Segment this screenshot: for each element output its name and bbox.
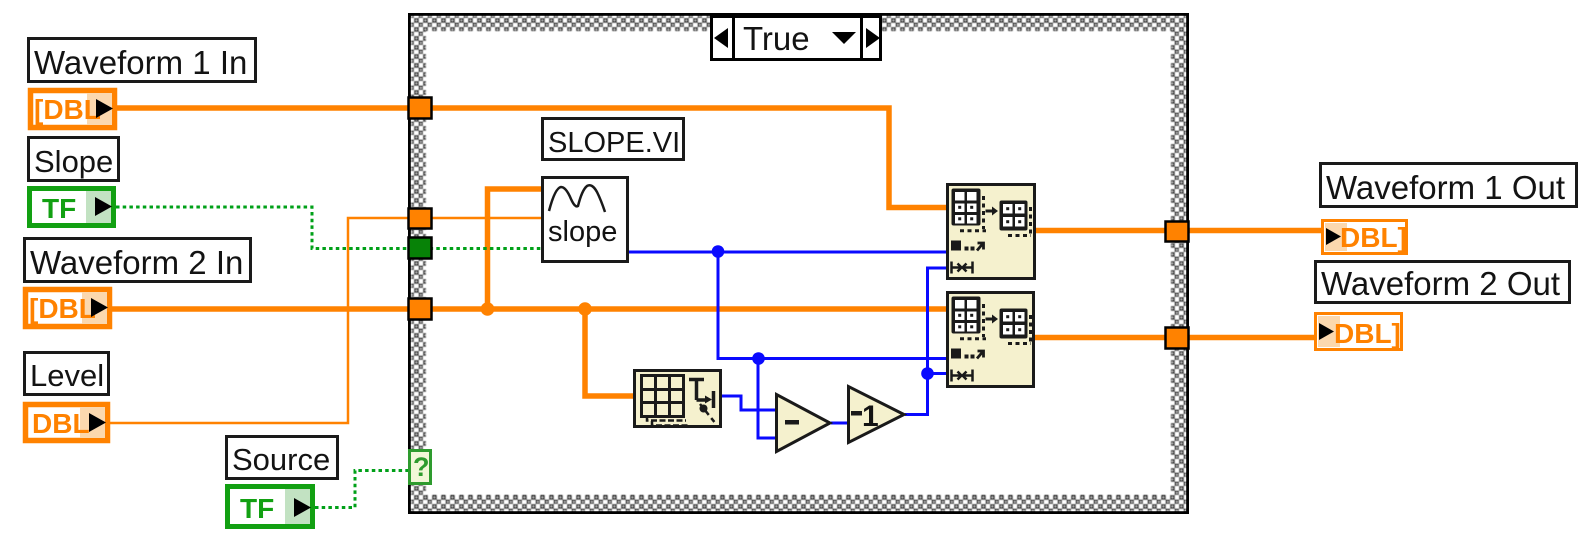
svg-text:DBL: DBL (32, 408, 90, 439)
junction waveform2-trigger (578, 302, 592, 316)
wire source boolean (green dotted) (315, 471, 410, 508)
append waveforms icon 1 (948, 185, 1035, 279)
junction blue 2 (752, 352, 765, 365)
wire waveform 2 branch up to SLOPE.VI (488, 189, 542, 309)
label Waveform 1 In (29, 39, 256, 82)
wire slope-out blue (629, 251, 946, 254)
svg-text:Waveform 1 Out: Waveform 1 Out (1326, 169, 1565, 206)
svg-text:Waveform 2 Out: Waveform 2 Out (1321, 265, 1560, 302)
svg-text:Waveform 2 In: Waveform 2 In (30, 244, 243, 281)
wire subtract to -1 (831, 422, 848, 425)
junction blue 1 (712, 245, 725, 258)
case structure border (410, 15, 1188, 513)
control terminal Waveform 2 In [DBL] (26, 290, 110, 327)
svg-text:SLOPE.VI: SLOPE.VI (548, 127, 680, 159)
svg-text:1: 1 (862, 400, 879, 433)
svg-text:[DBL: [DBL (34, 94, 101, 125)
wire -1 out up to icons (905, 268, 946, 415)
wire blue branch down to icon2 (718, 252, 946, 359)
wire trigger out blue (722, 396, 776, 410)
control terminal Level DBL (26, 405, 108, 441)
subVI trigger detection icon (635, 371, 721, 427)
wire level (thin orange) (110, 218, 541, 423)
svg-text:Waveform 1 In: Waveform 1 In (34, 44, 247, 81)
label Slope (29, 138, 119, 181)
label Source (227, 437, 338, 479)
wire waveform 1 (thick orange) (117, 108, 946, 208)
svg-text:[DBL: [DBL (29, 293, 96, 324)
indicator Waveform 2 Out [DBL] (1316, 314, 1402, 350)
label Waveform 2 Out (1316, 262, 1570, 303)
label SLOPE.VI (543, 119, 684, 160)
svg-text:True: True (743, 20, 810, 57)
svg-text:slope: slope (548, 216, 617, 248)
svg-text:Level: Level (30, 358, 104, 393)
svg-text:TF: TF (42, 193, 76, 224)
tunnel waveform 1 in (409, 98, 432, 119)
svg-text:DBL]: DBL] (1340, 222, 1407, 253)
wire blue into icon2 lower input (928, 372, 947, 375)
svg-text:?: ? (413, 452, 430, 482)
indicator Waveform 1 Out [DBL] (1323, 221, 1407, 254)
junction blue 3 (921, 367, 934, 380)
tunnel waveform 1 out (1166, 222, 1189, 242)
wire waveform 2 branch down to trigger (585, 309, 633, 396)
case selector label True (712, 16, 881, 60)
subtract node (777, 395, 831, 452)
wire waveform 1 out (1036, 228, 1321, 234)
append waveforms icon 2 (948, 293, 1034, 387)
svg-text:TF: TF (240, 493, 274, 524)
case selector terminal ? (410, 451, 431, 484)
control terminal Waveform 1 In [DBL] (31, 91, 115, 128)
tunnel level in (409, 209, 432, 229)
multiply -1 node (849, 387, 905, 443)
label Waveform 2 In (25, 239, 251, 282)
control terminal Slope TF (30, 189, 114, 226)
wire slope boolean (green dotted) (116, 207, 541, 249)
tunnel slope boolean (green) (409, 238, 432, 259)
subVI SLOPE.VI icon (543, 178, 628, 262)
junction waveform2-slope (481, 302, 495, 316)
svg-text:Slope: Slope (34, 144, 113, 179)
tunnel waveform 2 out (1166, 328, 1189, 349)
label Waveform 1 Out (1321, 164, 1577, 207)
tunnel waveform 2 in (409, 299, 432, 320)
wire waveform 2 (thick orange) (112, 306, 946, 312)
wire waveform 2 out (1033, 335, 1314, 341)
svg-text:Source: Source (232, 442, 330, 477)
label Level (25, 353, 109, 395)
svg-text:DBL]: DBL] (1334, 318, 1401, 349)
control terminal Source TF (228, 487, 313, 527)
wire blue branch to subtract (758, 359, 776, 439)
